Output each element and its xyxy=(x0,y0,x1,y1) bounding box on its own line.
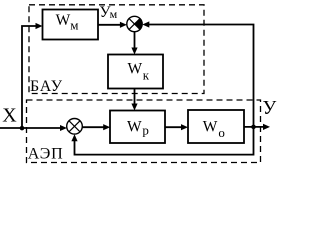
svg-text:W: W xyxy=(127,118,142,135)
svg-text:р: р xyxy=(142,122,149,137)
svg-text:АЭП: АЭП xyxy=(28,146,64,163)
svg-text:W: W xyxy=(128,60,143,77)
svg-text:к: к xyxy=(143,67,150,82)
svg-text:м: м xyxy=(70,18,78,33)
svg-text:о: о xyxy=(218,125,225,140)
svg-text:БАУ: БАУ xyxy=(30,78,63,95)
svg-text:W: W xyxy=(56,12,71,29)
svg-text:X: X xyxy=(2,105,17,127)
svg-text:м: м xyxy=(110,7,118,21)
svg-text:У: У xyxy=(263,98,277,119)
svg-text:W: W xyxy=(203,118,218,135)
